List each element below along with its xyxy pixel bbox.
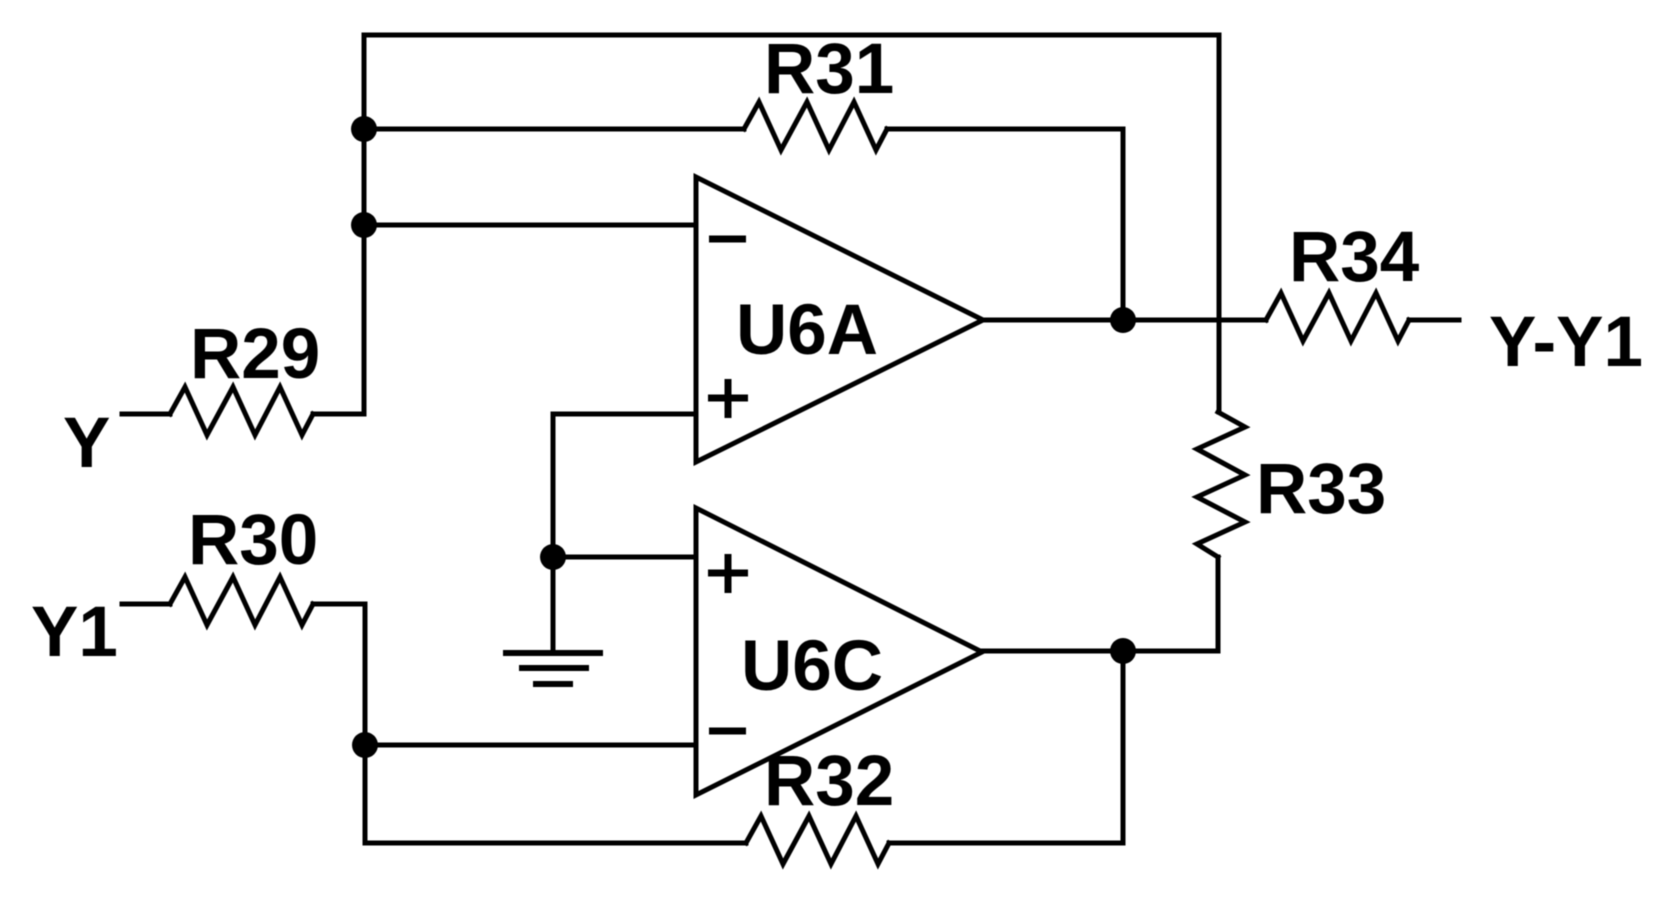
wire R30 to lower node	[313, 602, 365, 607]
op-amp U6C triangle	[696, 508, 982, 795]
svg-text:Y: Y	[63, 404, 110, 483]
resistor R33	[1197, 412, 1245, 557]
U6C minus input symbol	[709, 728, 746, 735]
junction node at U6A inverting input tap	[351, 212, 377, 238]
wire lower-right vertical	[1121, 651, 1126, 843]
wire U6C inverting input	[365, 743, 696, 748]
svg-text:R32: R32	[764, 742, 894, 821]
resistor R32	[746, 816, 889, 864]
junction node at U6C output	[1110, 638, 1136, 664]
op-amp U6A triangle	[696, 177, 983, 462]
svg-text:R29: R29	[190, 315, 320, 394]
svg-text:U6C: U6C	[741, 627, 883, 706]
ground symbol bars	[503, 650, 603, 656]
junction node at R31/top-rail tap	[351, 116, 377, 142]
wire R29 input from Y	[122, 412, 170, 417]
wire ground node to U6C non-inverting input	[553, 555, 696, 560]
U6C plus input symbol	[708, 554, 748, 593]
resistor R34	[1266, 293, 1409, 341]
svg-text:R31: R31	[764, 30, 894, 109]
wire vertical to ground	[551, 414, 556, 652]
wire left vertical (node A)	[362, 35, 367, 414]
wire vertical from R31 to U6A output	[1121, 129, 1126, 320]
wire R31 right lead	[887, 127, 1123, 132]
wire bottom rail right	[889, 841, 1123, 846]
wire U6A output to R34	[983, 318, 1266, 323]
junction node at U6A output	[1110, 307, 1136, 333]
wire top feedback rail	[364, 33, 1219, 38]
wire R33 bottom lead	[1216, 557, 1221, 651]
wire U6A inverting input	[364, 223, 696, 228]
junction node at ground net	[540, 544, 566, 570]
svg-text:R34: R34	[1289, 218, 1420, 297]
svg-text:R33: R33	[1256, 450, 1386, 529]
wire U6C output	[982, 649, 1218, 654]
U6A plus input symbol	[708, 379, 748, 418]
svg-text:U6A: U6A	[736, 291, 878, 370]
resistor R30	[170, 577, 313, 625]
U6A minus input symbol	[709, 236, 746, 243]
wire R29 to node A	[313, 412, 364, 417]
wire R34 to Y-Y1	[1409, 318, 1459, 323]
wire right vertical from top rail to R33	[1217, 35, 1222, 412]
wire U6A non-inverting input	[553, 412, 696, 417]
junction node at U6C inverting input tap	[352, 732, 378, 758]
resistor R31	[744, 102, 887, 150]
wire bottom rail left	[365, 841, 746, 846]
resistor R29	[170, 387, 313, 435]
wire lower-left vertical	[363, 604, 368, 843]
svg-text:Y1: Y1	[31, 593, 118, 672]
svg-text:Y-Y1: Y-Y1	[1489, 303, 1643, 382]
wire R30 input from Y1	[122, 602, 170, 607]
svg-text:R30: R30	[188, 501, 318, 580]
wire R31 left lead	[364, 127, 744, 132]
